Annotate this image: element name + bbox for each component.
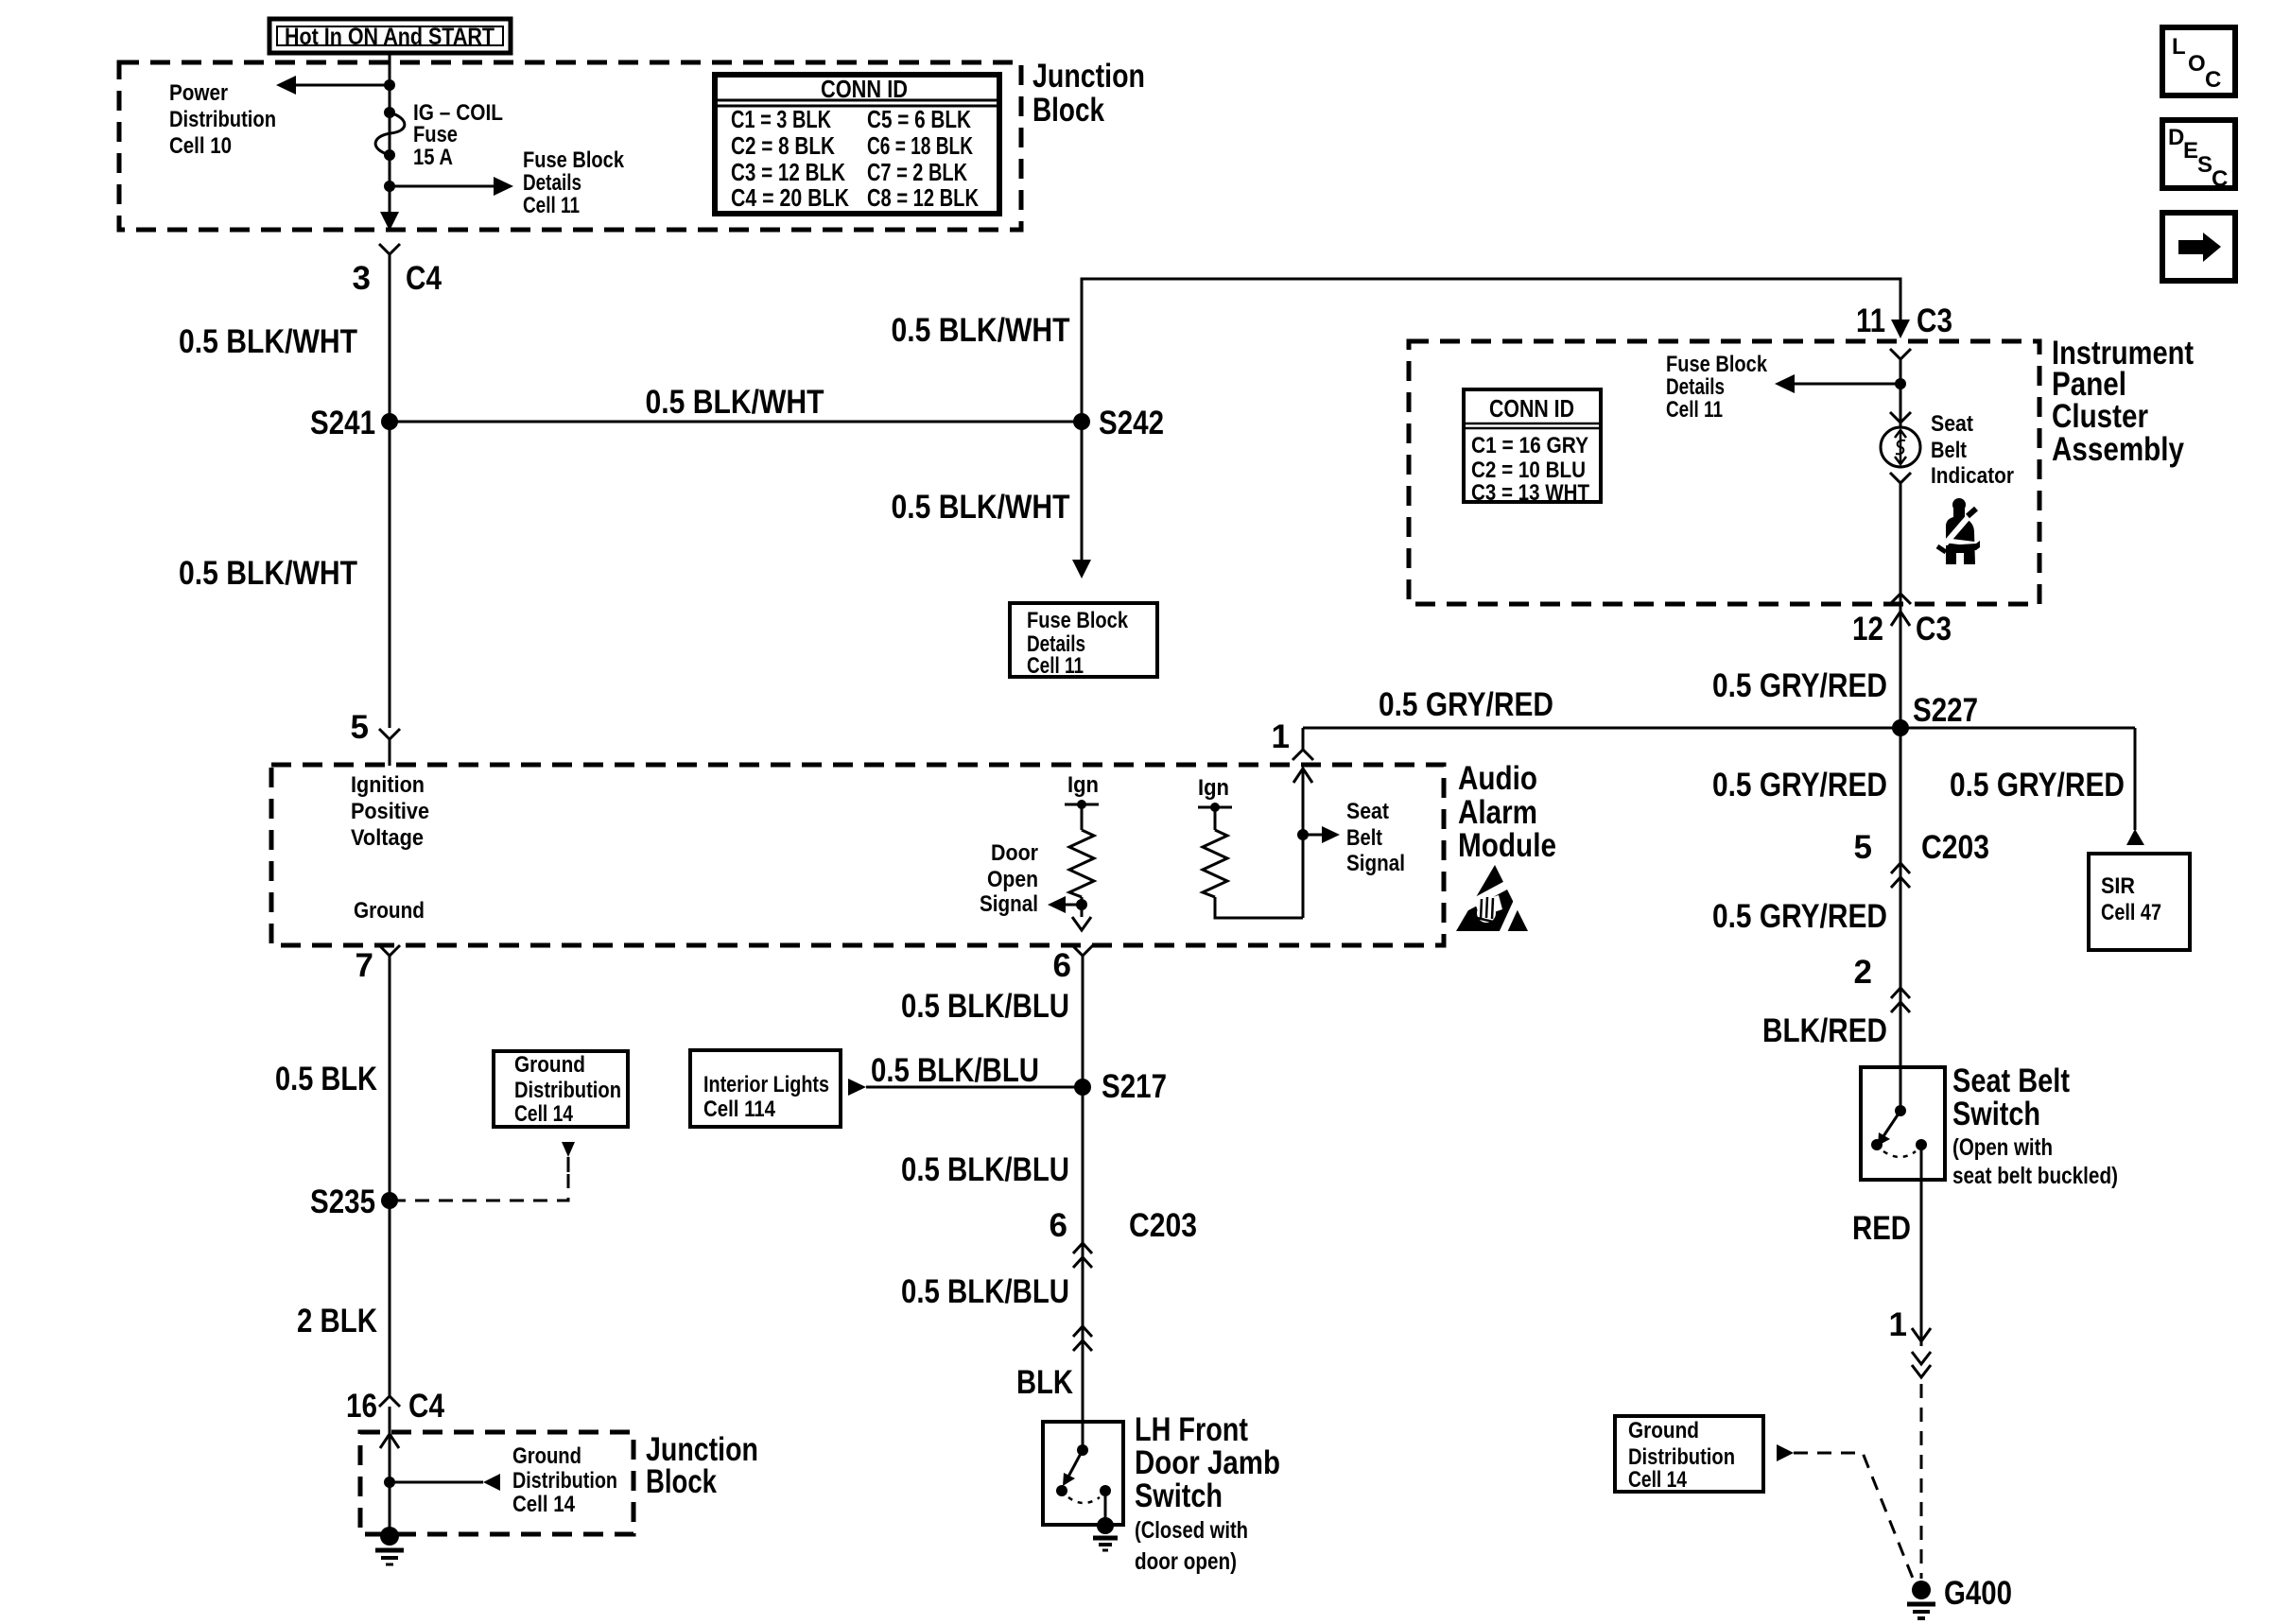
ground distribution cell 14 label (in junction block) xyxy=(512,1443,617,1517)
module labels left xyxy=(351,772,429,924)
svg-text:Positive: Positive xyxy=(351,799,429,824)
svg-text:0.5 BLK/WHT: 0.5 BLK/WHT xyxy=(892,312,1070,349)
svg-text:0.5 BLK/BLU: 0.5 BLK/BLU xyxy=(901,988,1069,1025)
module pin 6 fork xyxy=(1072,945,1093,956)
svg-text:Ign: Ign xyxy=(1067,772,1099,798)
svg-text:Ground: Ground xyxy=(514,1052,585,1078)
svg-text:Seat: Seat xyxy=(1346,799,1389,824)
svg-text:RED: RED xyxy=(1852,1210,1911,1247)
svg-text:Cell 14: Cell 14 xyxy=(1628,1467,1688,1493)
svg-text:Cell 47: Cell 47 xyxy=(2101,900,2161,925)
svg-text:(Closed with: (Closed with xyxy=(1135,1517,1248,1544)
svg-text:Switch: Switch xyxy=(1952,1096,2040,1132)
svg-text:Power: Power xyxy=(169,80,228,106)
resistor Ign (seat belt) xyxy=(1198,775,1303,918)
fuse block details cell 11 label (cluster) xyxy=(1666,352,1768,423)
audio alarm module dashed box xyxy=(271,765,1444,945)
svg-text:0.5 BLK/BLU: 0.5 BLK/BLU xyxy=(901,1273,1069,1310)
svg-text:0.5 BLK/WHT: 0.5 BLK/WHT xyxy=(646,384,824,421)
ground (junction block) xyxy=(375,1527,404,1564)
LOC box xyxy=(2162,27,2235,95)
svg-text:Module: Module xyxy=(1458,827,1556,864)
svg-text:Fuse Block: Fuse Block xyxy=(523,147,625,173)
svg-text:C4: C4 xyxy=(406,260,442,297)
junction block label xyxy=(1032,58,1145,129)
wire pin3 C4 down to S241 xyxy=(389,254,391,728)
seat belt indicator lamp xyxy=(1881,411,2014,489)
wire branch to SIR xyxy=(2134,728,2137,830)
svg-text:Indicator: Indicator xyxy=(1931,463,2014,489)
svg-text:L: L xyxy=(2172,34,2186,60)
svg-text:C8 = 12 BLK: C8 = 12 BLK xyxy=(867,183,979,212)
node S235 xyxy=(381,1192,398,1209)
svg-text:Ground: Ground xyxy=(1628,1418,1699,1443)
svg-text:C6 = 18 BLK: C6 = 18 BLK xyxy=(867,131,973,160)
svg-text:Ign: Ign xyxy=(1198,775,1229,801)
svg-text:Details: Details xyxy=(523,170,581,196)
svg-text:seat belt buckled): seat belt buckled) xyxy=(1952,1163,2118,1189)
svg-text:S241: S241 xyxy=(310,405,375,441)
arrow box xyxy=(2162,213,2235,281)
svg-text:Belt: Belt xyxy=(1931,438,1967,463)
door open signal arrow xyxy=(1065,904,1082,907)
LH front door jamb switch xyxy=(1043,1411,1280,1575)
svg-text:Alarm: Alarm xyxy=(1458,794,1537,831)
svg-text:6: 6 xyxy=(1050,1207,1067,1244)
svg-text:C203: C203 xyxy=(1921,829,1989,866)
CONN ID table (junction block) xyxy=(715,75,999,214)
wire to power distribution xyxy=(295,84,390,87)
wire ignition feed vertical xyxy=(389,53,391,214)
wire seat belt switch to connector xyxy=(1920,1180,1923,1346)
svg-text:C7 = 2 BLK: C7 = 2 BLK xyxy=(867,158,967,186)
svg-text:Signal: Signal xyxy=(980,891,1038,917)
arrow into cluster connector xyxy=(1891,320,1910,338)
svg-text:7: 7 xyxy=(356,947,373,984)
svg-text:16: 16 xyxy=(346,1388,377,1425)
svg-text:Details: Details xyxy=(1666,374,1725,400)
svg-text:2 BLK: 2 BLK xyxy=(297,1303,377,1339)
svg-text:Interior Lights: Interior Lights xyxy=(703,1072,829,1097)
svg-text:C: C xyxy=(2205,67,2221,93)
svg-text:CONN ID: CONN ID xyxy=(821,75,908,103)
node S227 xyxy=(1892,719,1909,736)
svg-text:Block: Block xyxy=(646,1463,717,1500)
wire S242 up and over to cluster xyxy=(1082,279,1900,422)
svg-text:0.5 BLK/WHT: 0.5 BLK/WHT xyxy=(179,555,357,592)
node fuse block tap in cluster xyxy=(1895,378,1906,389)
svg-text:S: S xyxy=(2197,152,2212,178)
svg-text:Cell 14: Cell 14 xyxy=(514,1101,574,1127)
svg-text:D: D xyxy=(2168,125,2184,150)
svg-text:C203: C203 xyxy=(1129,1207,1197,1244)
svg-text:Seat: Seat xyxy=(1931,411,1973,437)
svg-text:0.5 GRY/RED: 0.5 GRY/RED xyxy=(1950,767,2125,803)
svg-text:door open): door open) xyxy=(1135,1548,1237,1575)
wire cluster to S227 xyxy=(1900,604,1902,728)
hot in on and start label box xyxy=(269,19,511,53)
svg-text:C4 = 20 BLK: C4 = 20 BLK xyxy=(731,183,849,212)
CONN ID table (cluster) xyxy=(1464,389,1601,506)
svg-text:CONN ID: CONN ID xyxy=(1489,394,1574,423)
module pin 1 fork xyxy=(1293,750,1313,760)
connector C2 pin 5 fork xyxy=(379,729,400,739)
svg-text:1: 1 xyxy=(1272,718,1290,755)
svg-text:C5 = 6 BLK: C5 = 6 BLK xyxy=(867,105,971,133)
svg-text:Switch: Switch xyxy=(1135,1477,1223,1514)
connector C203 pin 6 xyxy=(1073,1243,1092,1253)
node S217 xyxy=(1074,1079,1091,1096)
svg-text:C3: C3 xyxy=(1917,302,1952,339)
node fuse output tap xyxy=(384,181,395,192)
svg-text:Cell 14: Cell 14 xyxy=(512,1492,576,1517)
fuse IG-COIL 15A xyxy=(375,100,503,170)
svg-text:5: 5 xyxy=(1854,829,1872,866)
seat belt person icon xyxy=(1937,498,1980,564)
svg-text:LH Front: LH Front xyxy=(1135,1411,1248,1448)
svg-text:Fuse Block: Fuse Block xyxy=(1027,608,1129,633)
svg-text:BLK/RED: BLK/RED xyxy=(1762,1012,1887,1049)
ground distribution cell 14 box (right) xyxy=(1615,1416,1763,1493)
svg-text:C2 = 8 BLK: C2 = 8 BLK xyxy=(731,131,835,160)
dashed wire to G400 xyxy=(1920,1384,1923,1579)
svg-text:5: 5 xyxy=(351,709,369,746)
svg-text:Distribution: Distribution xyxy=(512,1468,617,1494)
svg-text:0.5 BLK/WHT: 0.5 BLK/WHT xyxy=(179,323,357,360)
svg-text:Distribution: Distribution xyxy=(514,1078,621,1103)
svg-text:2: 2 xyxy=(1854,954,1872,991)
svg-text:Block: Block xyxy=(1032,92,1104,129)
svg-text:G400: G400 xyxy=(1944,1575,2012,1612)
svg-text:C3 = 12 BLK: C3 = 12 BLK xyxy=(731,158,845,186)
svg-text:0.5 GRY/RED: 0.5 GRY/RED xyxy=(1379,686,1553,723)
arrow out of junction block xyxy=(380,212,399,231)
seat belt signal branch xyxy=(1302,769,1305,918)
svg-text:Signal: Signal xyxy=(1346,851,1405,876)
svg-text:0.5 BLK: 0.5 BLK xyxy=(275,1061,377,1097)
svg-text:C: C xyxy=(2212,166,2228,192)
ground distribution cell 14 box (left) xyxy=(494,1051,628,1127)
wire S227 horizontal xyxy=(1303,727,2135,730)
svg-text:Distribution: Distribution xyxy=(1628,1444,1735,1470)
svg-text:E: E xyxy=(2183,138,2198,164)
wire S227 down xyxy=(1900,728,1902,1067)
svg-text:Cell 11: Cell 11 xyxy=(523,193,580,218)
wire S241 to S242 xyxy=(390,421,1082,423)
svg-text:BLK: BLK xyxy=(1016,1364,1073,1401)
svg-text:Assembly: Assembly xyxy=(2052,431,2184,468)
svg-text:Fuse Block: Fuse Block xyxy=(1666,352,1768,377)
connector pin 2 xyxy=(1891,988,1910,998)
svg-text:Audio: Audio xyxy=(1458,760,1537,797)
cluster pin 12 fork xyxy=(1890,594,1911,604)
svg-text:0.5 BLK/BLU: 0.5 BLK/BLU xyxy=(901,1151,1069,1188)
module pin 7 fork xyxy=(379,945,400,956)
svg-text:0.5 GRY/RED: 0.5 GRY/RED xyxy=(1712,767,1887,803)
node power distribution tap xyxy=(384,79,395,91)
svg-text:Fuse: Fuse xyxy=(413,122,458,147)
svg-text:Distribution: Distribution xyxy=(169,107,276,132)
dashed wire ground distribution to G400 xyxy=(1794,1453,1914,1581)
svg-text:(Open with: (Open with xyxy=(1952,1134,2053,1161)
svg-text:C1 = 3 BLK: C1 = 3 BLK xyxy=(731,105,831,133)
DESC box xyxy=(2162,120,2235,192)
svg-text:Junction: Junction xyxy=(1032,58,1145,95)
svg-text:Door: Door xyxy=(991,840,1038,866)
svg-text:S235: S235 xyxy=(310,1183,375,1220)
svg-text:S217: S217 xyxy=(1102,1068,1167,1105)
connector C203 pin 5 xyxy=(1891,863,1910,873)
svg-text:0.5 BLK/BLU: 0.5 BLK/BLU xyxy=(871,1052,1039,1089)
svg-text:Hot In ON And START: Hot In ON And START xyxy=(285,24,495,50)
junction block (top) dashed box xyxy=(119,62,1021,230)
wire S242 down to fuse block details xyxy=(1081,422,1084,560)
instrument panel cluster assembly dashed box xyxy=(1409,341,2039,604)
svg-text:O: O xyxy=(2188,51,2206,77)
wire pin7 down to junction block xyxy=(389,956,391,1396)
dashed wire S235 to ground distribution xyxy=(390,1174,568,1201)
svg-text:Cell 11: Cell 11 xyxy=(1666,397,1723,423)
svg-text:Ignition: Ignition xyxy=(351,772,425,798)
svg-text:6: 6 xyxy=(1053,947,1071,984)
svg-text:Ground: Ground xyxy=(354,898,425,924)
svg-text:C2 = 10 BLU: C2 = 10 BLU xyxy=(1471,458,1586,483)
svg-text:C3 = 13 WHT: C3 = 13 WHT xyxy=(1471,480,1589,506)
ESD symbol xyxy=(1454,865,1528,936)
ground G400 xyxy=(1907,1575,2012,1618)
svg-text:SIR: SIR xyxy=(2101,873,2135,899)
svg-text:Ground: Ground xyxy=(512,1443,581,1469)
SIR cell 47 box xyxy=(2089,854,2190,950)
resistor Ign (door open) xyxy=(1065,772,1099,917)
svg-text:C3: C3 xyxy=(1916,611,1952,648)
svg-text:Cluster: Cluster xyxy=(2052,398,2148,435)
node ground tap xyxy=(384,1477,395,1488)
svg-text:Door Jamb: Door Jamb xyxy=(1135,1444,1280,1481)
svg-text:0.5 GRY/RED: 0.5 GRY/RED xyxy=(1712,667,1887,704)
svg-text:Cell 114: Cell 114 xyxy=(703,1097,776,1122)
connector C4 pin 3 fork xyxy=(379,244,400,254)
svg-text:Open: Open xyxy=(987,867,1038,892)
interior lights cell 114 box xyxy=(690,1050,841,1127)
svg-text:15 A: 15 A xyxy=(413,145,453,170)
node S242 xyxy=(1073,413,1090,430)
junction block (bottom) dashed box xyxy=(360,1432,633,1534)
connector C4 pin 16 xyxy=(379,1396,400,1407)
svg-text:1: 1 xyxy=(1889,1306,1907,1343)
node S241 xyxy=(381,413,398,430)
svg-text:C1 = 16 GRY: C1 = 16 GRY xyxy=(1471,433,1588,458)
svg-text:12: 12 xyxy=(1852,611,1883,648)
svg-text:0.5 BLK/WHT: 0.5 BLK/WHT xyxy=(892,489,1070,526)
power distribution cell 10 label xyxy=(169,80,276,159)
seat belt switch xyxy=(1861,1063,2118,1189)
svg-text:C4: C4 xyxy=(408,1388,444,1425)
wire pin6 down xyxy=(1082,956,1084,1422)
svg-text:Cell 11: Cell 11 xyxy=(1027,653,1084,679)
svg-text:Cell 10: Cell 10 xyxy=(169,133,232,159)
svg-text:S227: S227 xyxy=(1913,692,1978,729)
svg-text:Belt: Belt xyxy=(1346,825,1382,851)
fuse block details cell 11 label (top) xyxy=(523,147,625,218)
wire to fuse block details xyxy=(390,185,495,188)
svg-text:S242: S242 xyxy=(1099,405,1164,441)
svg-text:Seat Belt: Seat Belt xyxy=(1952,1063,2070,1099)
svg-text:Voltage: Voltage xyxy=(351,825,424,851)
svg-text:11: 11 xyxy=(1856,302,1885,339)
svg-text:0.5 GRY/RED: 0.5 GRY/RED xyxy=(1712,898,1887,935)
svg-text:3: 3 xyxy=(353,260,371,297)
fuse block details cell 11 box (middle) xyxy=(1010,603,1157,679)
cluster pin 11 fork xyxy=(1890,349,1911,359)
